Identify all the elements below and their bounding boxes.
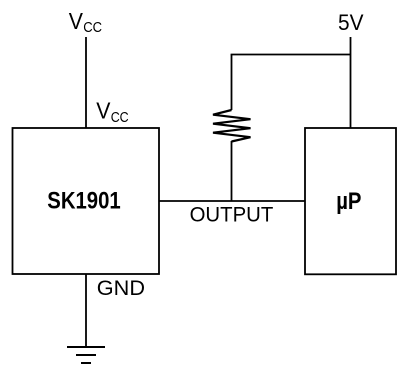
svg-text:CC: CC [111,109,129,126]
svg-text:V: V [69,8,84,34]
resistor R1 pull-up (zigzag) [213,110,251,142]
svg-text:OUTPUT: OUTPUT [190,203,274,226]
IC U1 SK1901 body [13,128,160,274]
IC U2 microprocessor body [305,128,396,274]
wire VCC supply down to SK1901 VCC pin [85,37,87,128]
svg-text:SK1901: SK1901 [47,188,120,215]
wire resistor top lead up to 5V rail [231,55,233,111]
svg-text:GND: GND [97,277,145,300]
ground symbol [67,347,105,363]
power label VCC (supply rail) [69,8,102,36]
svg-text:5V: 5V [338,10,364,35]
wire SK1901 GND pin down to ground [85,274,87,347]
wire OUTPUT from SK1901 to uP [159,200,305,202]
svg-text:µP: µP [336,188,361,215]
pin label VCC on SK1901 [96,98,129,126]
wire resistor bottom lead to OUTPUT node [231,141,233,201]
wire 5V rail horizontal [231,54,351,56]
svg-text:V: V [96,98,111,124]
wire 5V down to uP [350,37,352,128]
svg-text:CC: CC [83,19,102,36]
